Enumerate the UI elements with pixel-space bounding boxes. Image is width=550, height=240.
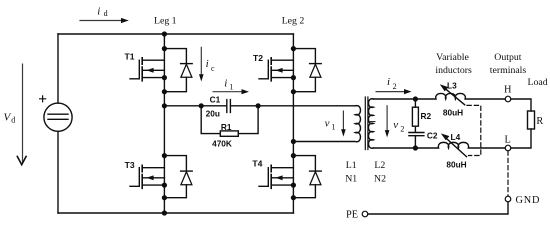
svg-text:i: i (206, 58, 209, 70)
svg-text:L4: L4 (451, 132, 461, 142)
svg-text:80uH: 80uH (443, 107, 463, 117)
svg-text:R: R (536, 116, 543, 127)
svg-text:c: c (211, 64, 215, 73)
svg-text:Leg 1: Leg 1 (154, 15, 177, 26)
svg-text:Leg 2: Leg 2 (282, 15, 305, 26)
svg-text:Output: Output (494, 52, 521, 63)
svg-text:L2: L2 (374, 160, 385, 171)
svg-text:2: 2 (393, 82, 397, 91)
svg-text:T2: T2 (253, 53, 263, 63)
svg-text:T1: T1 (124, 51, 134, 61)
svg-text:terminals: terminals (490, 65, 527, 76)
svg-text:1: 1 (229, 82, 233, 91)
svg-text:470K: 470K (212, 138, 232, 148)
svg-text:inductors: inductors (435, 65, 472, 76)
svg-text:C1: C1 (210, 94, 221, 104)
svg-text:L3: L3 (447, 81, 457, 91)
svg-text:R1: R1 (221, 122, 232, 132)
svg-text:i: i (224, 77, 227, 89)
svg-text:T3: T3 (125, 160, 135, 170)
svg-text:N1: N1 (345, 174, 357, 185)
svg-text:T4: T4 (252, 158, 262, 168)
svg-text:PE: PE (346, 210, 358, 221)
svg-text:1: 1 (332, 122, 336, 131)
svg-text:L1: L1 (346, 160, 357, 171)
svg-text:R2: R2 (420, 111, 431, 121)
svg-text:Load: Load (528, 77, 548, 88)
svg-text:L: L (504, 135, 510, 146)
svg-text:d: d (104, 9, 108, 18)
svg-text:C2: C2 (427, 130, 438, 140)
svg-text:N2: N2 (374, 174, 386, 185)
svg-text:Variable: Variable (436, 52, 469, 63)
svg-text:80uH: 80uH (446, 160, 466, 170)
svg-text:d: d (11, 116, 15, 125)
svg-text:20u: 20u (206, 109, 220, 119)
svg-text:i: i (97, 5, 100, 17)
svg-text:2: 2 (400, 124, 404, 133)
svg-text:v: v (393, 119, 398, 131)
svg-text:v: v (325, 117, 330, 129)
svg-text:H: H (504, 84, 512, 95)
svg-text:i: i (387, 76, 390, 88)
svg-text:GND: GND (516, 195, 541, 206)
